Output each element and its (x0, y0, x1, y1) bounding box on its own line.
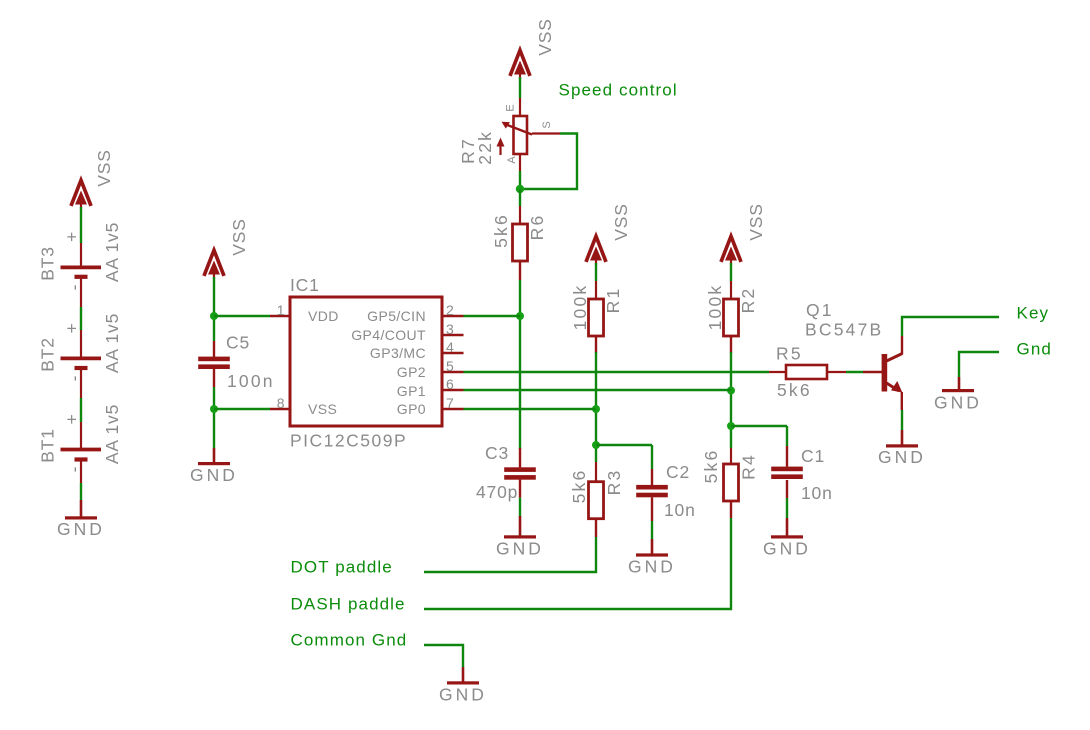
svg-text:IC1: IC1 (290, 275, 320, 295)
svg-text:BT2: BT2 (38, 337, 58, 372)
svg-text:2: 2 (446, 302, 454, 318)
svg-text:5k6: 5k6 (701, 449, 721, 484)
svg-text:VSS: VSS (535, 18, 555, 55)
wire (80, 207, 82, 243)
svg-text:BT3: BT3 (38, 246, 58, 281)
capacitor C3 (519, 448, 521, 467)
svg-text:PIC12C509P: PIC12C509P (290, 431, 407, 451)
svg-text:BC547B: BC547B (805, 320, 883, 340)
svg-text:VSS: VSS (94, 149, 114, 186)
svg-text:10n: 10n (801, 483, 833, 503)
svg-text:R1: R1 (603, 287, 623, 314)
ground (C3) (519, 516, 522, 536)
supply VSS (C5) (204, 251, 224, 279)
svg-text:GND: GND (190, 465, 238, 485)
resistor R2 (730, 281, 732, 299)
node (GP0/R1) (592, 405, 600, 413)
svg-text:Speed control: Speed control (559, 81, 678, 100)
svg-text:+: + (62, 231, 82, 242)
svg-text:GP0: GP0 (397, 401, 426, 417)
svg-text:C2: C2 (666, 462, 690, 482)
wire Common Gnd (424, 645, 463, 667)
wire to C1 (731, 425, 787, 427)
battery BT1 (80, 422, 82, 449)
svg-text:+: + (62, 413, 82, 424)
wire (730, 263, 732, 281)
wire (730, 352, 732, 448)
svg-text:Gnd: Gnd (1017, 340, 1052, 359)
wire GP0 (464, 408, 597, 410)
wire GP2 (464, 371, 770, 373)
svg-text:6: 6 (446, 376, 454, 392)
battery BT3 (80, 243, 82, 266)
svg-text:VSS: VSS (611, 203, 631, 240)
svg-text:Key: Key (1017, 304, 1050, 323)
svg-text:GP5/CIN: GP5/CIN (367, 308, 426, 324)
svg-text:A: A (506, 156, 518, 164)
svg-text:5k6: 5k6 (569, 469, 589, 504)
node (GP1/R2) (727, 387, 735, 395)
svg-text:BT1: BT1 (38, 428, 58, 463)
wire (595, 352, 597, 462)
svg-text:8: 8 (277, 395, 285, 411)
svg-text:VDD: VDD (308, 308, 339, 324)
svg-text:DOT paddle: DOT paddle (291, 558, 393, 577)
wire S loop (532, 132, 560, 134)
transistor Q1 (882, 354, 888, 392)
wire DOT paddle (424, 537, 596, 572)
supply VSS (R2) (721, 237, 741, 265)
svg-text:S: S (541, 121, 553, 128)
pin 5 GP2 (442, 371, 464, 373)
svg-text:C5: C5 (226, 333, 250, 353)
pin 7 GP0 (442, 408, 464, 410)
svg-text:GND: GND (628, 557, 676, 577)
resistor R1 (595, 281, 597, 299)
svg-text:C1: C1 (801, 446, 825, 466)
wire to IC pin1 (214, 315, 270, 317)
wire (213, 387, 215, 448)
wire DASH paddle (424, 518, 731, 609)
capacitor C5 (213, 341, 215, 357)
svg-text:R4: R4 (739, 453, 759, 480)
resistor R3 (595, 462, 597, 481)
svg-text:10n: 10n (664, 500, 696, 520)
node (R7 wiper junction) (516, 185, 524, 193)
wire to IC pin8 (214, 408, 270, 410)
potentiometer R7 (519, 98, 521, 116)
capacitor C1 (786, 426, 788, 446)
svg-text:R6: R6 (527, 214, 547, 241)
svg-text:100k: 100k (570, 284, 590, 331)
svg-text:5k6: 5k6 (491, 213, 511, 248)
pin 3 GP4/COUT (442, 334, 464, 336)
svg-text:VSS: VSS (308, 401, 337, 417)
node (R3/C2 junction) (592, 441, 600, 449)
svg-text:100n: 100n (227, 371, 275, 391)
ground (Gnd) (958, 377, 961, 389)
svg-text:5k6: 5k6 (777, 380, 812, 400)
svg-text:E: E (505, 104, 517, 111)
svg-text:GND: GND (57, 519, 105, 539)
svg-text:GND: GND (934, 393, 982, 413)
svg-text:AA 1v5: AA 1v5 (102, 313, 122, 373)
wire Gnd (959, 352, 999, 377)
pin 6 GP1 (442, 389, 464, 391)
node (R4/C1 junction) (727, 422, 735, 430)
wire (595, 263, 597, 281)
ground (Common) (462, 667, 465, 682)
svg-text:VSS: VSS (746, 203, 766, 240)
svg-text:GND: GND (763, 539, 811, 559)
svg-text:R3: R3 (604, 469, 624, 496)
supply VSS (main) (510, 51, 530, 79)
svg-text:Common Gnd: Common Gnd (291, 631, 408, 650)
wire pin2 (464, 315, 521, 317)
svg-text:4: 4 (446, 339, 454, 355)
ground (C5) (213, 448, 216, 462)
svg-text:R5: R5 (776, 344, 803, 364)
svg-text:AA 1v5: AA 1v5 (102, 404, 122, 464)
ground (C2) (651, 539, 654, 554)
IC IC1 box (290, 297, 442, 426)
wire Key (902, 317, 999, 336)
svg-text:470p: 470p (476, 482, 518, 502)
resistor R4 (730, 448, 732, 464)
svg-text:3: 3 (446, 321, 454, 337)
resistor R6 (519, 206, 521, 224)
wire (80, 398, 82, 422)
capacitor C2 (651, 445, 653, 469)
wire to C2 (596, 444, 652, 446)
svg-text:7: 7 (446, 395, 454, 411)
svg-text:-: - (64, 466, 84, 473)
svg-text:GND: GND (439, 685, 487, 705)
resistor R5 (769, 371, 786, 373)
wire emitter (901, 410, 903, 430)
svg-text:GP4/COUT: GP4/COUT (351, 327, 426, 343)
wire (519, 498, 521, 517)
pin 4 GP3/MC (442, 352, 464, 354)
ground (battery) (80, 500, 83, 517)
wire (80, 307, 82, 330)
svg-text:Q1: Q1 (806, 300, 834, 320)
node (C5 top junction) (210, 312, 218, 320)
svg-text:GP1: GP1 (397, 383, 426, 399)
svg-text:GP2: GP2 (397, 364, 426, 380)
svg-text:AA 1v5: AA 1v5 (102, 222, 122, 282)
svg-text:GP3/MC: GP3/MC (370, 345, 426, 361)
ground (Q1) (886, 444, 918, 447)
ground (C1) (786, 518, 789, 536)
wire (651, 521, 653, 539)
wire (519, 77, 521, 98)
svg-text:100k: 100k (705, 284, 725, 331)
svg-text:C3: C3 (485, 443, 509, 463)
wire (786, 498, 788, 518)
svg-text:5: 5 (446, 358, 454, 374)
node (C5 bottom junction) (210, 405, 218, 413)
svg-text:-: - (64, 375, 84, 382)
pin 2 GP5/CIN (442, 315, 464, 317)
wire to base (846, 371, 863, 373)
wire (80, 483, 82, 500)
svg-text:GND: GND (878, 447, 926, 467)
supply VSS (battery) (71, 181, 91, 209)
svg-text:VSS: VSS (229, 218, 249, 255)
svg-text:1: 1 (277, 302, 285, 318)
svg-text:DASH paddle: DASH paddle (291, 595, 406, 614)
svg-text:+: + (62, 322, 82, 333)
svg-text:-: - (64, 284, 84, 291)
wire (519, 280, 521, 449)
battery BT2 (80, 330, 82, 358)
wire (519, 189, 521, 206)
supply VSS (R1) (586, 237, 606, 265)
node (pin2 junction) (516, 312, 524, 320)
svg-text:R2: R2 (738, 287, 758, 314)
wire GP1 (464, 389, 732, 391)
svg-text:22k: 22k (475, 130, 495, 165)
wire (213, 277, 215, 341)
svg-text:GND: GND (496, 539, 544, 559)
wire (519, 171, 521, 189)
